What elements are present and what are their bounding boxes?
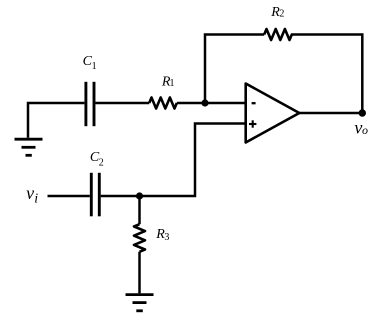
resistor R1 bbox=[149, 98, 177, 109]
svg-text:1: 1 bbox=[92, 61, 97, 72]
wire: R3 to bottom ground bbox=[138, 252, 141, 293]
svg-text:1: 1 bbox=[170, 78, 175, 89]
label R2 bbox=[270, 5, 284, 20]
op-amp minus pin label bbox=[252, 102, 256, 104]
wire: feedback left vertical and top run to R2 bbox=[205, 35, 264, 104]
label R1 bbox=[161, 74, 175, 89]
label C1 bbox=[83, 54, 97, 72]
label vo bbox=[354, 118, 368, 138]
svg-text:2: 2 bbox=[99, 157, 104, 168]
svg-text:v: v bbox=[26, 183, 34, 203]
svg-text:o: o bbox=[362, 123, 368, 137]
wire: C2 to node bbox=[101, 195, 140, 198]
wire: node down to R3 bbox=[138, 196, 141, 224]
wire: C1 to R1 bbox=[95, 102, 149, 105]
label C2 bbox=[90, 150, 104, 168]
capacitor C1 bbox=[86, 82, 94, 126]
ground (bottom) bbox=[126, 295, 154, 311]
wire: R2 to right rail down to output bbox=[291, 35, 362, 114]
node: vi / C2 / R3 junction bbox=[136, 192, 143, 199]
resistor R3 bbox=[134, 224, 145, 252]
wire: R1 to op-amp inverting input (through node) bbox=[177, 102, 246, 105]
wire: op-amp output to vo node bbox=[298, 112, 362, 115]
op-amp plus pin label bbox=[249, 120, 256, 127]
op-amp U1 bbox=[246, 84, 300, 143]
svg-text:i: i bbox=[34, 191, 38, 206]
svg-text:3: 3 bbox=[164, 232, 169, 243]
label R3 bbox=[155, 227, 169, 243]
svg-text:2: 2 bbox=[279, 9, 284, 20]
node: inverting input junction bbox=[201, 99, 208, 106]
node: output vo bbox=[359, 109, 366, 116]
label vi bbox=[26, 183, 38, 207]
wire: vi to C2 bbox=[48, 195, 90, 198]
resistor R2 bbox=[264, 29, 292, 40]
ground (left) bbox=[15, 139, 43, 155]
wire: non-inverting input stub to lower node bbox=[140, 124, 246, 197]
capacitor C2 bbox=[91, 173, 99, 217]
wire: left horizontal from ground corner to C1 left plate bbox=[28, 103, 84, 138]
